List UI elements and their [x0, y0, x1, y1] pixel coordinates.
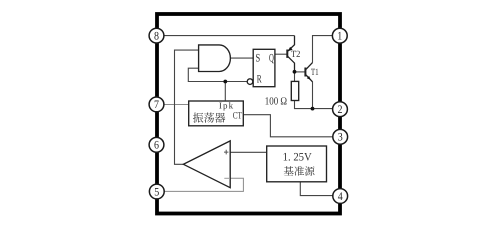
reference box 1.25V	[267, 146, 327, 182]
comparator + input label	[224, 150, 228, 155]
T1 emitter arrow	[307, 76, 311, 80]
svg-text:T1: T1	[311, 68, 319, 78]
transistor T1	[305, 63, 312, 82]
T2 emitter arrow	[288, 47, 293, 51]
svg-text:1: 1	[337, 31, 342, 43]
svg-text:S: S	[255, 52, 260, 64]
pin 6	[149, 137, 164, 152]
R input inverter bubble	[247, 79, 253, 85]
wire pin2 node: resistor bottom and T1 emitter to pin2	[295, 101, 334, 109]
svg-text:Q: Q	[269, 52, 274, 64]
svg-text:100 Ω: 100 Ω	[265, 95, 287, 107]
svg-text:1. 25V: 1. 25V	[283, 151, 313, 163]
svg-text:Ipk: Ipk	[219, 101, 234, 111]
wire pin1 to T1 collector	[313, 36, 334, 63]
wire AND output to S input	[230, 57, 253, 59]
pin 1	[332, 28, 347, 43]
SR flip-flop box	[253, 49, 275, 86]
label oscillator (zhendangqi)	[193, 113, 203, 123]
wire comparator output to AND gate input	[175, 50, 199, 164]
wire reference to pin4	[300, 182, 333, 196]
pin 2	[333, 102, 348, 117]
svg-text:7: 7	[154, 99, 159, 111]
svg-text:6: 6	[154, 140, 159, 152]
IC package outline	[157, 14, 340, 214]
comparator - input label	[224, 177, 230, 179]
wire pin8 to T2 collector	[163, 35, 295, 37]
resistor 100 ohm	[291, 81, 298, 100]
svg-text:CT: CT	[233, 110, 242, 121]
svg-text:T2: T2	[291, 50, 301, 60]
wire oscillator CT to pin3	[244, 115, 333, 137]
wire pin7 to oscillator	[163, 104, 188, 106]
pin 8	[149, 28, 164, 43]
svg-text:4: 4	[338, 191, 343, 203]
junction dot T2 emitter / T1 base / resistor	[293, 70, 297, 74]
wire T1 emitter down	[312, 82, 314, 109]
junction dot T1 emitter / pin2 wire	[311, 107, 315, 111]
wire Q output to T2 base	[275, 53, 287, 55]
oscillator box Ipk	[189, 101, 244, 126]
svg-text:2: 2	[338, 104, 343, 116]
junction dot R wire / oscillator	[223, 80, 227, 84]
wire T2 emitter to T1 base node	[295, 71, 306, 73]
transistor T2	[287, 36, 294, 72]
svg-text:3: 3	[338, 132, 343, 144]
wire R node to oscillator top	[224, 82, 226, 101]
pin 5	[149, 184, 164, 199]
comparator	[183, 141, 230, 188]
svg-text:R: R	[257, 73, 262, 85]
AND gate	[199, 45, 231, 72]
svg-text:5: 5	[154, 186, 159, 198]
wire pin5 to comparator inverting input	[163, 178, 243, 191]
wire comparator + input to reference	[230, 151, 267, 153]
label reference source (jizhunyuan)	[284, 166, 294, 175]
pin 4	[333, 189, 348, 204]
pin 3	[333, 129, 348, 144]
svg-text:8: 8	[154, 30, 159, 42]
wire AND gate lower input loop to flipflop R	[188, 68, 247, 81]
wire node to resistor top	[294, 72, 296, 82]
pin 7	[149, 97, 164, 112]
